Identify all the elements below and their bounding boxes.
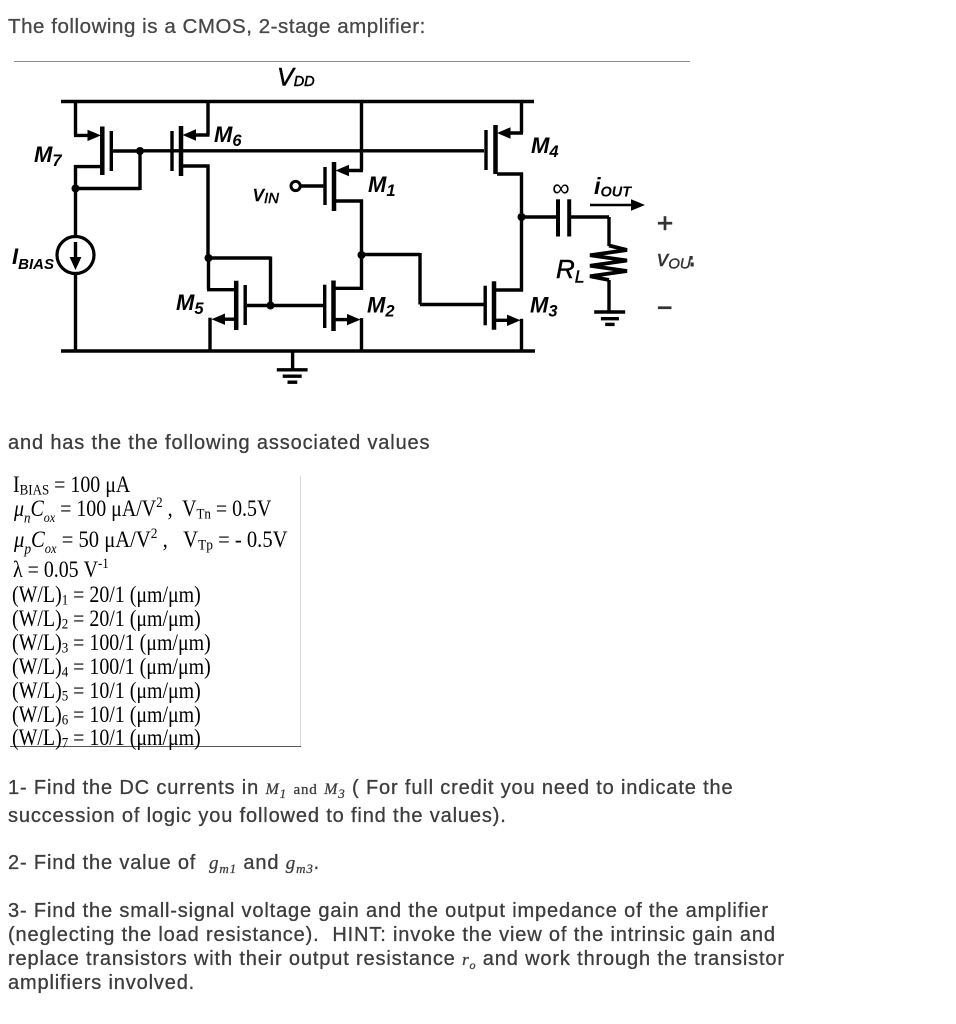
- label M3: [530, 293, 558, 321]
- label IBIAS: [12, 244, 54, 273]
- svg-text:vIN: vIN: [253, 181, 279, 207]
- svg-text:M7: M7: [34, 142, 62, 170]
- question paragraphs: [0, 0, 956, 1]
- label iOUT: [594, 173, 632, 201]
- values lines: [0, 0, 956, 1]
- wire PMOS mirror gate line: [140, 149, 484, 152]
- wire M7 diode connection: [76, 151, 141, 190]
- label M7: [34, 142, 62, 170]
- node M1-M2 drain junction dot: [358, 251, 366, 259]
- wire M5 gate to M2 gate: [271, 304, 324, 307]
- label infinity: [552, 175, 569, 202]
- node M6-M5 junction dot: [205, 254, 213, 262]
- svg-text:M3: M3: [530, 293, 558, 321]
- svg-text:M2: M2: [367, 293, 395, 321]
- capacitor infinity: [558, 199, 609, 236]
- transistor M7: [74, 100, 140, 237]
- resistor RL: [590, 246, 627, 313]
- svg-text:vOU: vOU: [657, 246, 691, 273]
- transistor M5: [207, 258, 270, 351]
- svg-text:VDD: VDD: [277, 64, 315, 92]
- transistor M3: [485, 217, 523, 351]
- node M7 gate-drain junction dot: [136, 147, 144, 155]
- wire M2 drain to M3 gate: [362, 253, 484, 305]
- wire capacitor to RL: [607, 217, 610, 246]
- transistor M4: [486, 100, 523, 217]
- values table borders: [300, 476, 301, 747]
- label minus: [658, 306, 672, 309]
- label M4: [531, 133, 559, 161]
- label RL: [556, 254, 585, 287]
- svg-text:IBIAS: IBIAS: [12, 244, 54, 273]
- node output junction dot: [518, 213, 526, 221]
- label plus: [658, 216, 672, 230]
- transistor M6: [172, 100, 210, 258]
- label M5: [176, 290, 204, 318]
- CIRCUIT SVG: [0, 0, 720, 400]
- label vOUT: [657, 246, 694, 273]
- svg-text:M6: M6: [214, 122, 242, 150]
- svg-text:M4: M4: [531, 133, 559, 161]
- svg-text:M5: M5: [176, 290, 204, 318]
- wire IBIAS to bottom rail: [74, 274, 77, 352]
- svg-text:M1: M1: [368, 172, 396, 200]
- transistor M2: [325, 254, 363, 352]
- separator rule: [14, 61, 690, 62]
- ground symbol under RL: [594, 312, 625, 324]
- svg-text:iOUT: iOUT: [594, 173, 632, 201]
- and has ... line: [8, 433, 430, 453]
- wire M5 diode connection: [207, 257, 271, 306]
- wire output node to capacitor: [522, 215, 557, 218]
- label M1: [368, 172, 396, 200]
- label vIN: [253, 181, 279, 207]
- wire ground bottom rail: [61, 349, 535, 352]
- current source IBIAS: [57, 237, 94, 274]
- title: [8, 15, 426, 39]
- node M5 gate junction dot: [267, 302, 275, 310]
- svg-text:RL: RL: [556, 254, 585, 287]
- ground symbol under bottom rail: [277, 351, 308, 382]
- svg-text:∞: ∞: [552, 175, 569, 202]
- node M7 drain dot: [72, 185, 80, 193]
- label M6: [214, 122, 242, 150]
- wire iOUT arrow: [590, 199, 645, 211]
- transistor M1: [291, 100, 363, 255]
- node VDD label: [277, 64, 315, 92]
- wire VDD top rail: [61, 100, 534, 103]
- label M2: [367, 293, 395, 321]
